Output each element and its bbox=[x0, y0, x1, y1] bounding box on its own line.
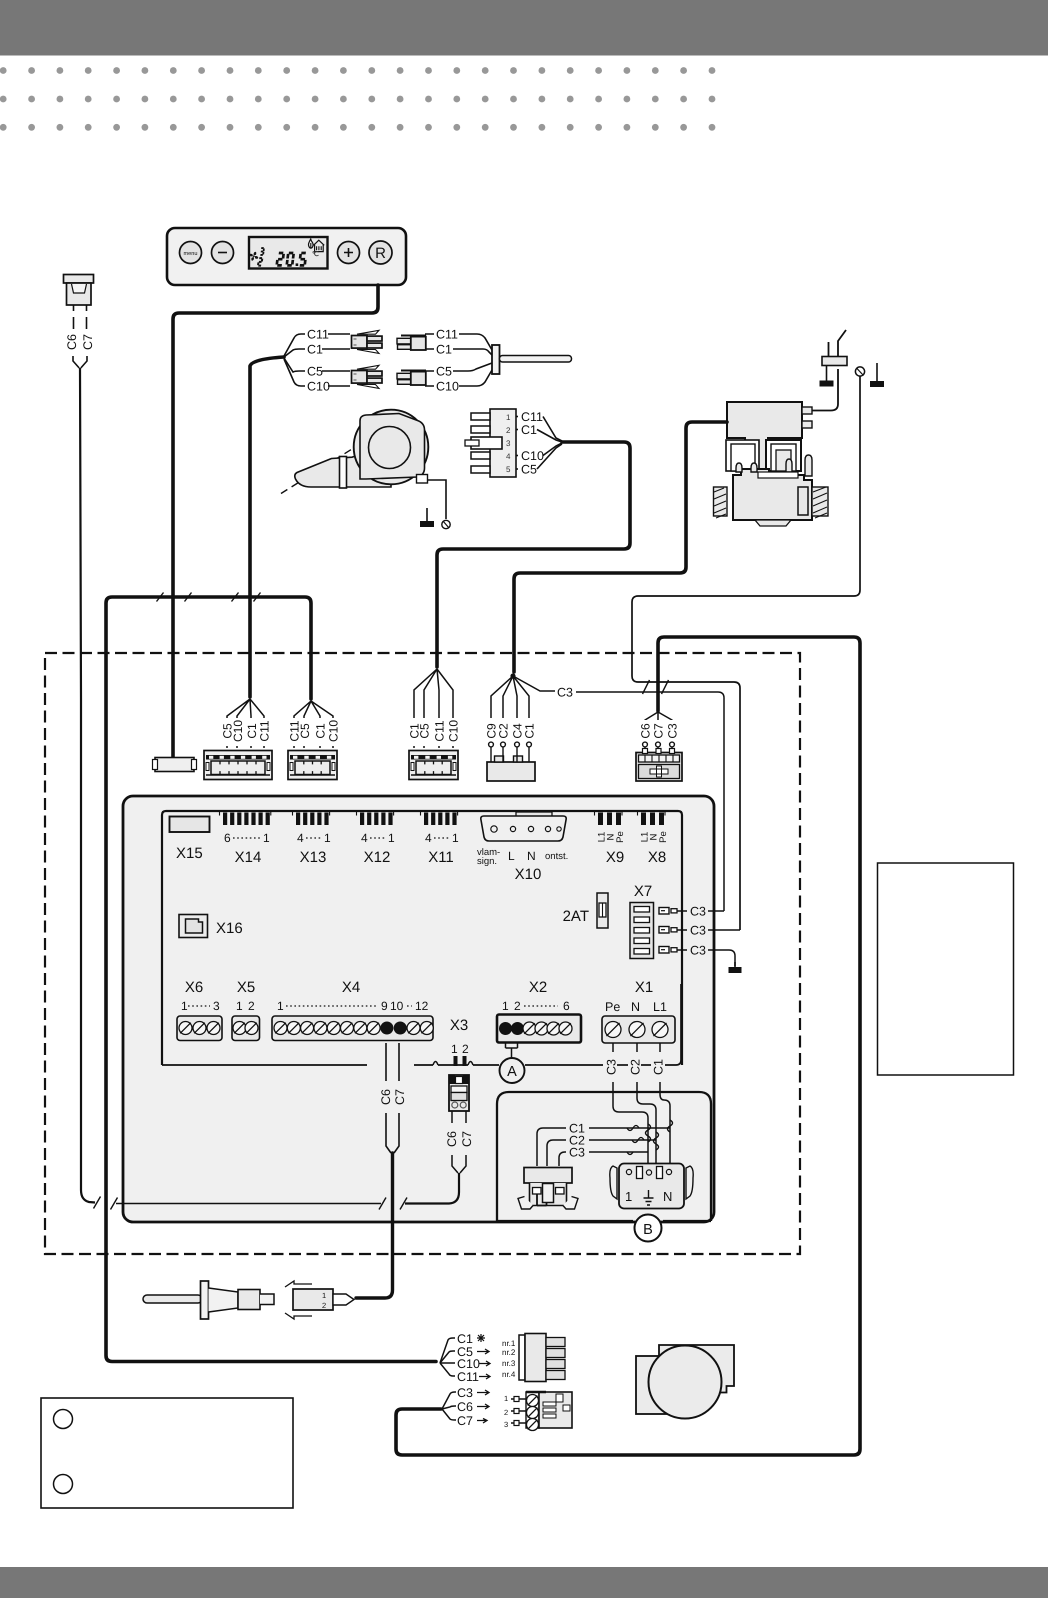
earth wire to board bbox=[632, 377, 860, 931]
svg-text:6: 6 bbox=[563, 999, 570, 1013]
gas valve coil block bbox=[727, 402, 812, 470]
B socket right bbox=[610, 1164, 693, 1209]
gas valve winding right bbox=[766, 440, 801, 471]
electrode ground bbox=[820, 366, 834, 387]
X9 header bbox=[595, 811, 623, 826]
X2 jumper bracket bbox=[506, 1043, 518, 1058]
svg-text:nr.4: nr.4 bbox=[502, 1370, 516, 1379]
wire bundle X13 to ignition cable connector bbox=[106, 597, 436, 1362]
svg-text:L1: L1 bbox=[653, 1000, 667, 1014]
svg-text:2: 2 bbox=[514, 999, 521, 1013]
svg-text:C7: C7 bbox=[457, 1414, 473, 1428]
svg-text:C5: C5 bbox=[436, 365, 452, 379]
control panel housing bbox=[167, 228, 406, 285]
bundle crossing slashes bbox=[157, 593, 164, 602]
inner bottom edge with A link bbox=[162, 1064, 367, 1066]
decorative dot grid bbox=[0, 67, 715, 131]
X8 header bbox=[638, 811, 666, 826]
svg-text:nr.1: nr.1 bbox=[502, 1339, 516, 1348]
wire C3 to ground bbox=[708, 950, 735, 966]
wire C1 to plug bbox=[284, 349, 305, 357]
bottom grey banner bbox=[0, 1567, 1048, 1598]
svg-text:C1: C1 bbox=[457, 1332, 473, 1346]
svg-text:Pe: Pe bbox=[605, 1000, 620, 1014]
svg-text:R: R bbox=[375, 245, 386, 262]
wire C10 to plug bbox=[284, 359, 305, 386]
ignition unit connector bbox=[519, 1334, 565, 1382]
connector X8 mains plug bbox=[636, 749, 682, 782]
gas valve body bbox=[733, 455, 812, 526]
svg-text:C3: C3 bbox=[690, 905, 706, 919]
fanout to X13 bbox=[294, 701, 333, 748]
X3 pins bbox=[454, 1056, 458, 1066]
svg-text:C1: C1 bbox=[436, 343, 452, 357]
pin5 wire C5 bbox=[516, 468, 518, 470]
LCD burner house icon bbox=[314, 240, 325, 251]
spade C3 bottom bbox=[659, 947, 677, 954]
LCD display bbox=[249, 237, 328, 269]
svg-text:2: 2 bbox=[506, 426, 511, 435]
pin4 wire C10 bbox=[516, 455, 518, 457]
svg-text:1: 1 bbox=[625, 1189, 632, 1204]
B wire squiggles bbox=[627, 1126, 644, 1155]
svg-text:C7: C7 bbox=[460, 1131, 474, 1147]
junction box B outline bbox=[497, 1092, 711, 1221]
labels above X11 bbox=[407, 718, 460, 746]
connector above X14 bbox=[204, 751, 272, 780]
sensor bus wire bbox=[116, 1203, 381, 1205]
X11 header bbox=[421, 811, 458, 826]
reset button R bbox=[369, 241, 392, 264]
B plug left bbox=[518, 1168, 578, 1210]
svg-text:C10: C10 bbox=[457, 1357, 480, 1371]
gas valve winding left bbox=[726, 440, 759, 471]
svg-text:C1: C1 bbox=[523, 723, 537, 739]
svg-text:C10: C10 bbox=[327, 720, 341, 742]
svg-text:C3: C3 bbox=[690, 944, 706, 958]
X3 sensor cable to bus bbox=[405, 1173, 459, 1204]
svg-text:C3: C3 bbox=[569, 1146, 585, 1160]
svg-text:N: N bbox=[631, 1000, 640, 1014]
socket C11/C1 female bbox=[397, 336, 426, 351]
svg-text:C11: C11 bbox=[307, 328, 329, 342]
svg-text:C5: C5 bbox=[418, 723, 432, 739]
svg-text:2AT: 2AT bbox=[563, 908, 589, 925]
labels above X14 bbox=[220, 718, 272, 746]
chassis ground symbol bbox=[870, 363, 884, 387]
svg-text:4: 4 bbox=[361, 831, 368, 845]
svg-text:ontst.: ontst. bbox=[545, 851, 568, 862]
svg-text:N: N bbox=[527, 849, 536, 863]
svg-text:C10: C10 bbox=[447, 720, 461, 742]
svg-text:C11: C11 bbox=[258, 720, 272, 741]
svg-text:C1: C1 bbox=[314, 723, 328, 739]
fan dashed mounting line bbox=[281, 449, 352, 494]
wire squiggles bbox=[646, 1120, 673, 1150]
svg-text:C3: C3 bbox=[605, 1059, 619, 1075]
svg-text:B: B bbox=[643, 1222, 653, 1238]
node fan cable bundle bbox=[442, 1392, 456, 1420]
ignition cable bbox=[356, 1153, 393, 1298]
burner fan connector bbox=[504, 1392, 572, 1429]
svg-text:1: 1 bbox=[504, 1394, 508, 1403]
X10 flame connector on board bbox=[481, 812, 566, 841]
svg-text:C3: C3 bbox=[666, 723, 680, 739]
wire C11 to plug bbox=[284, 334, 305, 356]
svg-text:6: 6 bbox=[224, 831, 231, 845]
X3 sensor wires bbox=[451, 1111, 453, 1123]
fan connector 5pin bbox=[465, 409, 516, 477]
fan mounting flange bbox=[340, 457, 347, 489]
X7 terminal block bbox=[630, 903, 654, 959]
svg-text:1: 1 bbox=[322, 1291, 326, 1300]
ignition electrode rod bbox=[143, 1281, 274, 1319]
X16 service jack bbox=[179, 915, 208, 938]
ignition cable plug bbox=[285, 1281, 354, 1319]
node ignition cable bundle bbox=[440, 1338, 455, 1376]
X13 header bbox=[293, 811, 330, 826]
svg-text:10: 10 bbox=[390, 999, 404, 1013]
svg-text:1: 1 bbox=[451, 1042, 458, 1056]
top grey banner bbox=[0, 0, 1048, 56]
svg-text:C2: C2 bbox=[497, 723, 511, 739]
burner fan icon bbox=[636, 1345, 734, 1419]
wire Pe with label C3 bbox=[612, 1043, 614, 1052]
svg-text:A: A bbox=[507, 1064, 517, 1080]
information box bbox=[41, 1398, 293, 1508]
spade C3 top bbox=[659, 908, 677, 915]
svg-text:X8: X8 bbox=[648, 849, 666, 866]
wire L1 with label C1 bbox=[659, 1043, 661, 1052]
fanout to X11 bbox=[414, 669, 453, 748]
svg-text:C1: C1 bbox=[521, 423, 537, 437]
X15 socket bbox=[170, 817, 210, 833]
labels above X10 bbox=[484, 718, 537, 746]
labels above X13 bbox=[287, 718, 340, 746]
svg-text:C10: C10 bbox=[307, 380, 330, 394]
svg-text:1: 1 bbox=[181, 999, 188, 1013]
svg-text:C5: C5 bbox=[307, 365, 323, 379]
crossing slashes at X8 wire bbox=[643, 680, 650, 694]
X14 header bbox=[220, 811, 271, 826]
svg-text:X13: X13 bbox=[300, 849, 327, 866]
connector above X11 bbox=[409, 751, 458, 780]
wire N with label C2 bbox=[636, 1043, 638, 1052]
node sensor cable split bbox=[250, 357, 284, 697]
connector X15 plug bbox=[153, 758, 197, 772]
svg-text:1: 1 bbox=[506, 413, 511, 422]
sensor lead C6 bbox=[73, 305, 75, 329]
gas valve left nut bbox=[714, 487, 728, 518]
wire panel to X15 bbox=[173, 285, 378, 757]
svg-text:X5: X5 bbox=[237, 979, 255, 996]
svg-text:5: 5 bbox=[506, 465, 511, 474]
menu button bbox=[180, 242, 202, 264]
svg-text:1: 1 bbox=[324, 831, 331, 845]
svg-text:1: 1 bbox=[263, 831, 270, 845]
svg-text:C11: C11 bbox=[521, 410, 543, 424]
svg-text:X10: X10 bbox=[515, 866, 542, 883]
svg-text:X1: X1 bbox=[635, 979, 653, 996]
fanout to X14 bbox=[227, 699, 264, 748]
svg-text:C6: C6 bbox=[457, 1400, 473, 1414]
svg-text:menu: menu bbox=[184, 251, 198, 257]
svg-text:2: 2 bbox=[504, 1408, 508, 1417]
svg-text:X6: X6 bbox=[185, 979, 203, 996]
svg-text:C6: C6 bbox=[639, 723, 653, 739]
socket C5/C10 female bbox=[397, 371, 426, 386]
svg-text:C1: C1 bbox=[307, 343, 323, 357]
fan earth wire bbox=[428, 480, 447, 519]
svg-text:C11: C11 bbox=[457, 1370, 479, 1384]
svg-text:C5: C5 bbox=[521, 463, 537, 477]
svg-text:C11: C11 bbox=[433, 720, 447, 741]
svg-text:N: N bbox=[663, 1189, 672, 1204]
B wires C1 C2 C3 bbox=[537, 1128, 566, 1166]
svg-text:1: 1 bbox=[236, 999, 243, 1013]
LCD temperature 20.5 bbox=[277, 253, 284, 265]
svg-text:1: 1 bbox=[502, 999, 509, 1013]
sensor lead C7 bbox=[86, 305, 88, 329]
svg-text:2: 2 bbox=[322, 1301, 326, 1310]
svg-text:nr.2: nr.2 bbox=[502, 1348, 516, 1357]
svg-text:C7: C7 bbox=[652, 723, 666, 739]
labels above X8 bbox=[638, 721, 679, 746]
wire outside sensor to X3 bus bbox=[80, 368, 95, 1203]
svg-text:C10: C10 bbox=[521, 449, 544, 463]
svg-text:C3: C3 bbox=[557, 686, 573, 700]
svg-text:C3: C3 bbox=[457, 1386, 473, 1400]
board inner area bbox=[162, 811, 682, 1065]
svg-text:L: L bbox=[508, 849, 515, 863]
fanout to X10 bbox=[491, 676, 529, 742]
LCD zone digit 2 bbox=[258, 258, 262, 266]
svg-text:X9: X9 bbox=[606, 849, 624, 866]
measuring point A bbox=[500, 1058, 525, 1083]
wire gas valve to X10 bbox=[514, 422, 727, 672]
outside sensor bbox=[64, 275, 94, 306]
svg-text:C2: C2 bbox=[629, 1059, 643, 1075]
svg-text:sign.: sign. bbox=[477, 856, 497, 867]
X12 header bbox=[357, 811, 394, 826]
C3 ground symbol bbox=[729, 962, 742, 973]
wire C3 to X7 pin bbox=[576, 692, 724, 911]
info bullet 2 bbox=[54, 1475, 73, 1494]
svg-text:C6: C6 bbox=[379, 1089, 393, 1105]
svg-text:X15: X15 bbox=[176, 845, 203, 862]
gas valve right nut bbox=[812, 487, 828, 518]
svg-text:C3: C3 bbox=[690, 924, 706, 938]
LCD flame icon bbox=[308, 239, 313, 248]
plug C11/C1 male bbox=[352, 330, 383, 353]
fan earth screw bbox=[442, 520, 450, 528]
svg-text:C7: C7 bbox=[393, 1089, 407, 1105]
wires X4 9/10 to ignition electrode bbox=[385, 1043, 387, 1081]
wire C5 to plug bbox=[284, 358, 305, 372]
svg-text:C1: C1 bbox=[652, 1059, 666, 1075]
svg-text:4: 4 bbox=[425, 831, 432, 845]
dashed boiler boundary bbox=[45, 653, 800, 1254]
plus button bbox=[338, 242, 360, 264]
svg-text:X12: X12 bbox=[364, 849, 391, 866]
fan blower housing bbox=[295, 410, 429, 487]
svg-text:C6: C6 bbox=[65, 334, 79, 350]
earth screw symbol bbox=[855, 367, 864, 376]
svg-text:3: 3 bbox=[213, 999, 220, 1013]
svg-text:C6: C6 bbox=[445, 1131, 459, 1147]
svg-text:2: 2 bbox=[248, 999, 255, 1013]
flame sense terminal block X3 sensor bbox=[449, 1075, 469, 1111]
svg-text:X11: X11 bbox=[428, 849, 454, 866]
svg-text:C5: C5 bbox=[298, 723, 312, 739]
minus button bbox=[212, 242, 234, 264]
svg-text:2: 2 bbox=[462, 1042, 469, 1056]
svg-text:X7: X7 bbox=[634, 883, 652, 900]
svg-text:X4: X4 bbox=[342, 979, 360, 996]
note box right bbox=[878, 863, 1014, 1075]
wire gas valve coil to electrode bbox=[812, 369, 838, 411]
svg-text:12: 12 bbox=[415, 999, 429, 1013]
pin1 wire C11 bbox=[516, 416, 518, 418]
svg-text:C10: C10 bbox=[436, 380, 459, 394]
pin2 wire C1 bbox=[516, 429, 518, 431]
LCD fan symbol with speed 3 bbox=[249, 252, 258, 261]
svg-text:C7: C7 bbox=[81, 334, 95, 350]
svg-text:nr.3: nr.3 bbox=[502, 1359, 516, 1368]
fan ground symbol bbox=[420, 508, 434, 527]
svg-text:9: 9 bbox=[381, 999, 388, 1013]
spade C3 middle bbox=[659, 927, 677, 934]
svg-text:1: 1 bbox=[277, 999, 284, 1013]
flow sensor probe bbox=[492, 345, 572, 374]
svg-text:3: 3 bbox=[504, 1420, 508, 1429]
svg-text:1: 1 bbox=[388, 831, 395, 845]
wire fan connector to X11 bbox=[437, 442, 630, 667]
connector above X10 flame bbox=[487, 742, 535, 781]
wire X8 bundle loop to burner fan bbox=[396, 637, 860, 1455]
plug C5/C10 male bbox=[352, 365, 383, 388]
node X10 bundle bbox=[510, 673, 515, 678]
connector above X13 bbox=[288, 751, 337, 780]
ignition electrode bbox=[822, 330, 847, 366]
info bullet 1 bbox=[54, 1410, 73, 1429]
svg-text:Pe: Pe bbox=[615, 831, 626, 843]
svg-text:Pe: Pe bbox=[658, 831, 669, 843]
measuring point B bbox=[497, 1220, 711, 1222]
svg-text:X3: X3 bbox=[450, 1017, 468, 1034]
control board outline bbox=[123, 796, 714, 1222]
fanout to X8 bbox=[645, 712, 672, 742]
svg-text:X2: X2 bbox=[529, 979, 547, 996]
svg-text:4: 4 bbox=[297, 831, 304, 845]
fan connector screws bbox=[527, 1395, 539, 1407]
svg-text:1: 1 bbox=[452, 831, 459, 845]
svg-text:C10: C10 bbox=[231, 720, 245, 742]
svg-text:X16: X16 bbox=[216, 920, 243, 937]
wire X10 node to C3 label bbox=[513, 676, 555, 691]
svg-text:C11: C11 bbox=[436, 328, 458, 342]
svg-text:4: 4 bbox=[506, 452, 511, 461]
svg-text:X14: X14 bbox=[235, 849, 262, 866]
svg-text:3: 3 bbox=[506, 439, 511, 448]
